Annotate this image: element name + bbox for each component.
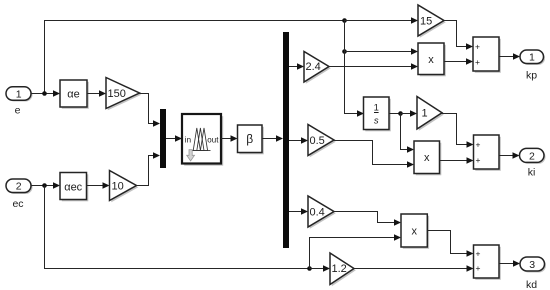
svg-text:+: + (476, 139, 481, 149)
wire mux to fuzzy controller (166, 135, 182, 142)
svg-text:1: 1 (422, 108, 428, 120)
wire gain 0.4 to product X3 (334, 212, 401, 226)
svg-text:in: in (185, 135, 191, 144)
svg-text:0.5: 0.5 (310, 135, 325, 147)
wire sum S2 to output ki (499, 152, 520, 159)
sum S1 (473, 37, 501, 73)
wire gain 1.2 to sum S3 (354, 265, 474, 272)
wire e branch up and across top (45, 21, 345, 94)
wire demux out3 to gain 0.4 (289, 208, 308, 215)
wire port2 to alpha-ec (31, 182, 60, 189)
svg-text:0.4: 0.4 (310, 206, 325, 218)
svg-text:2: 2 (529, 150, 535, 162)
gain 10 (110, 171, 139, 203)
mux (160, 109, 166, 168)
gain 1 (417, 97, 444, 131)
svg-text:10: 10 (112, 180, 124, 192)
wire gain 10 to mux input 2 (136, 152, 160, 185)
product X1 (418, 43, 446, 76)
wire bottom junction to gain 1.2 (310, 265, 331, 272)
wire junction to gain 1 (401, 110, 418, 117)
output port 1 (kp) (520, 50, 545, 65)
wire integrator out (389, 113, 401, 115)
svg-text:x: x (424, 152, 430, 164)
wire demux out2 to gain 0.5 (289, 137, 308, 144)
svg-text:1.2: 1.2 (332, 263, 347, 275)
output port 3 (kd) (520, 257, 546, 273)
svg-text:+: + (476, 263, 481, 273)
svg-text:kp: kp (526, 70, 537, 82)
wire gain 150 to mux input 1 (139, 94, 160, 127)
wire gain 0.5 to product X2 (334, 141, 414, 168)
wire product X2 to sum S2 (440, 157, 474, 164)
label kp (526, 70, 537, 82)
svg-text:15: 15 (420, 15, 432, 27)
svg-text:x: x (428, 54, 434, 66)
wire junction down to product X1 (345, 21, 419, 55)
svg-text:s: s (374, 116, 379, 127)
gain 15 (418, 5, 446, 38)
label e (15, 105, 21, 117)
node junction to product X1 (342, 49, 347, 54)
svg-text:1: 1 (374, 102, 379, 113)
gain 0.5 (308, 125, 336, 158)
svg-text:+: + (476, 155, 481, 165)
svg-text:β: β (246, 132, 253, 146)
gain 1.2 (330, 253, 356, 286)
gain 0.4 (308, 196, 336, 229)
block beta (238, 125, 264, 154)
wire sum S1 to output kp (499, 53, 520, 60)
wire top junction to gain 15 (345, 17, 419, 24)
svg-text:αe: αe (67, 88, 79, 100)
fuzzy logic controller (182, 114, 223, 166)
svg-text:αec: αec (64, 181, 82, 193)
node junction top (342, 18, 347, 23)
wire fuzzy controller to beta (221, 135, 238, 142)
svg-text:1: 1 (16, 88, 22, 100)
svg-text:3: 3 (529, 259, 535, 271)
wire port1 to alpha-e (31, 90, 60, 97)
svg-text:ki: ki (528, 167, 536, 179)
svg-text:2.4: 2.4 (306, 61, 321, 73)
sum S3 (474, 245, 501, 280)
svg-text:e: e (15, 105, 21, 117)
block alpha-e (60, 80, 89, 109)
input port 2 (ec) (6, 179, 33, 194)
block alpha-ec (60, 173, 88, 202)
svg-text:+: + (476, 248, 481, 258)
wire sum S3 to output kd (499, 260, 520, 267)
wire product X3 to sum S3 (427, 231, 473, 257)
wire bottom junction up to product X3 (310, 234, 402, 268)
node junction bottom (307, 266, 312, 271)
wire alpha-e to gain 150 (87, 90, 106, 97)
wire gain 2.4 to product X1 (329, 63, 418, 70)
wire ec branch down and across bottom (45, 186, 310, 269)
svg-text:+: + (475, 57, 480, 67)
label ec (12, 198, 23, 210)
svg-text:1: 1 (529, 52, 535, 64)
svg-text:x: x (411, 226, 417, 238)
wire alpha-ec to gain 10 (87, 182, 110, 189)
demux (283, 32, 289, 248)
gain 150 (106, 78, 141, 111)
wire gain 1 to sum S2 (442, 114, 474, 148)
svg-text:kd: kd (526, 279, 537, 290)
sum S2 (474, 135, 501, 171)
node junction e (42, 91, 47, 96)
svg-text:ec: ec (12, 198, 23, 210)
node junction ec (42, 183, 47, 188)
label kd (526, 279, 537, 290)
svg-text:out: out (207, 135, 219, 144)
gain 2.4 (304, 52, 331, 84)
input port 1 (e) (6, 87, 33, 102)
svg-text:+: + (475, 41, 480, 51)
wire junction down to product X2 (401, 114, 415, 153)
wire beta to demux (262, 135, 283, 142)
svg-text:150: 150 (108, 88, 126, 100)
product X3 (401, 214, 429, 249)
integrator 1/s (364, 97, 391, 131)
output port 2 (ki) (520, 148, 546, 164)
node junction integrator out (398, 111, 403, 116)
wire junction down to integrator (345, 52, 365, 117)
product X2 (414, 141, 441, 175)
wire product X1 to sum S1 (444, 58, 473, 65)
label ki (528, 167, 536, 179)
wire demux out1 to gain 2.4 (289, 63, 304, 70)
wire gain 15 to sum S1 (444, 21, 473, 50)
svg-text:2: 2 (16, 181, 22, 193)
